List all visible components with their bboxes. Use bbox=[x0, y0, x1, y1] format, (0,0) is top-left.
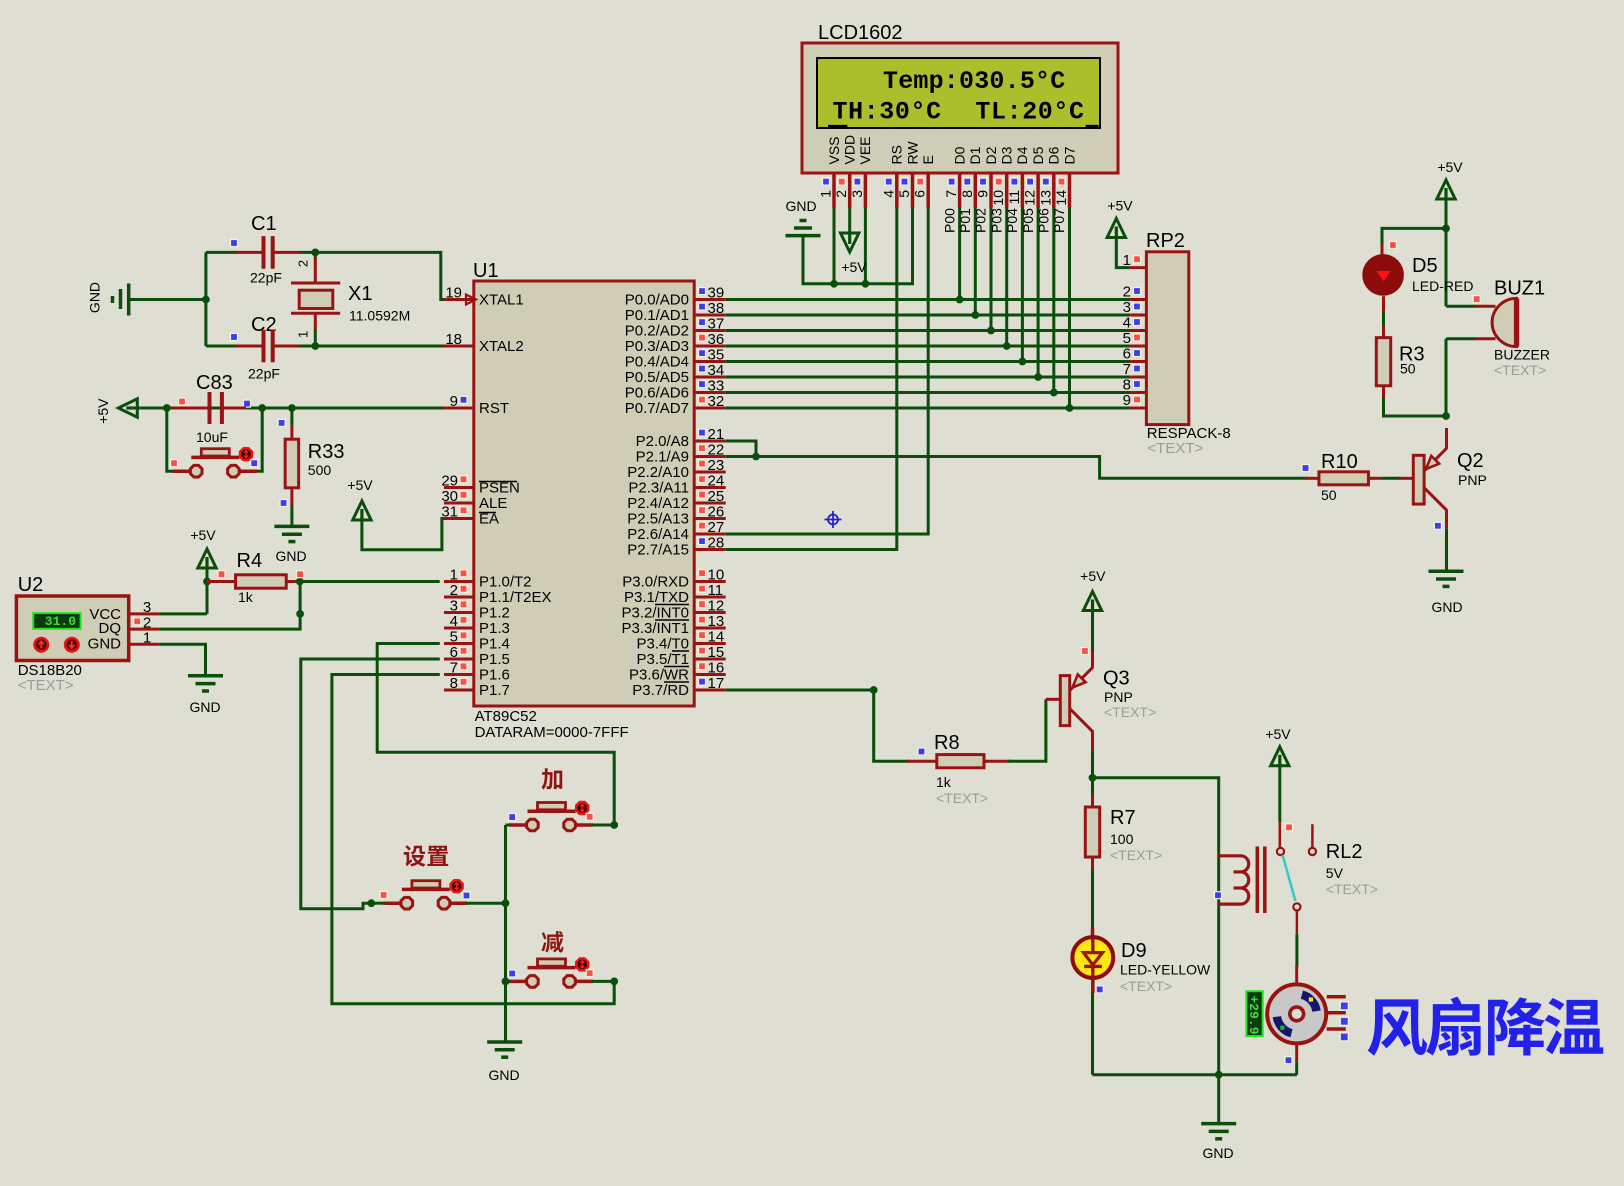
svg-text:3: 3 bbox=[1123, 299, 1131, 316]
svg-text:P2.4/A12: P2.4/A12 bbox=[627, 495, 689, 512]
svg-text:P0.0/AD0: P0.0/AD0 bbox=[625, 292, 689, 309]
svg-text:+29.9: +29.9 bbox=[1246, 996, 1261, 1035]
svg-text:GND: GND bbox=[1431, 599, 1462, 615]
svg-text:9: 9 bbox=[975, 190, 991, 198]
svg-text:RP2: RP2 bbox=[1146, 230, 1185, 252]
svg-text:4: 4 bbox=[1123, 315, 1131, 332]
svg-text:22pF: 22pF bbox=[248, 366, 280, 382]
svg-text:7: 7 bbox=[450, 660, 458, 677]
svg-text:19: 19 bbox=[445, 285, 462, 302]
svg-text:1: 1 bbox=[1123, 252, 1131, 269]
svg-text:+5V: +5V bbox=[1265, 726, 1291, 742]
svg-text:BUZZER: BUZZER bbox=[1494, 347, 1550, 363]
svg-text:P05: P05 bbox=[1020, 208, 1036, 233]
svg-text:P04: P04 bbox=[1004, 208, 1020, 233]
svg-text:P1.6: P1.6 bbox=[479, 667, 510, 684]
svg-text:30: 30 bbox=[441, 488, 458, 505]
svg-text:X1: X1 bbox=[348, 283, 372, 305]
svg-text:GND: GND bbox=[189, 699, 220, 715]
svg-text:U2: U2 bbox=[18, 574, 44, 596]
svg-text:D6: D6 bbox=[1046, 146, 1062, 164]
svg-text:17: 17 bbox=[708, 675, 725, 692]
svg-text:+5V: +5V bbox=[95, 398, 111, 424]
svg-text:BUZ1: BUZ1 bbox=[1494, 278, 1545, 300]
svg-text:+5V: +5V bbox=[841, 259, 867, 275]
svg-text:11: 11 bbox=[1006, 190, 1022, 205]
svg-text:R8: R8 bbox=[934, 732, 960, 754]
svg-text:RW: RW bbox=[904, 141, 920, 165]
svg-text:14: 14 bbox=[1053, 190, 1069, 206]
svg-text:13: 13 bbox=[1037, 190, 1053, 206]
svg-text:P06: P06 bbox=[1036, 208, 1052, 233]
svg-text:<TEXT>: <TEXT> bbox=[18, 677, 74, 694]
svg-text:9: 9 bbox=[450, 393, 458, 410]
svg-text:3: 3 bbox=[849, 190, 865, 198]
svg-text:14: 14 bbox=[708, 629, 725, 646]
svg-text:LED-YELLOW: LED-YELLOW bbox=[1120, 962, 1211, 978]
svg-text:4: 4 bbox=[450, 613, 458, 630]
svg-text:50: 50 bbox=[1321, 487, 1337, 503]
svg-text:1: 1 bbox=[143, 629, 151, 646]
svg-text:TL:20°C: TL:20°C bbox=[975, 98, 1084, 127]
svg-text:D1: D1 bbox=[967, 146, 983, 164]
svg-text:GND: GND bbox=[785, 198, 816, 214]
svg-text:P1.3: P1.3 bbox=[479, 620, 510, 637]
svg-text:P3.0/RXD: P3.0/RXD bbox=[622, 574, 689, 591]
svg-text:4: 4 bbox=[880, 190, 896, 198]
svg-text:D5: D5 bbox=[1412, 255, 1438, 277]
svg-text:P0.1/AD1: P0.1/AD1 bbox=[625, 307, 689, 324]
svg-text:<TEXT>: <TEXT> bbox=[1326, 881, 1378, 897]
svg-text:Q2: Q2 bbox=[1457, 450, 1484, 472]
svg-text:8: 8 bbox=[959, 190, 975, 198]
svg-text:P3.6/WR: P3.6/WR bbox=[629, 667, 689, 684]
svg-text:34: 34 bbox=[708, 362, 725, 379]
svg-text:<TEXT>: <TEXT> bbox=[1104, 704, 1156, 720]
svg-text:10: 10 bbox=[708, 567, 725, 584]
svg-text:LCD1602: LCD1602 bbox=[818, 22, 903, 44]
svg-text:P2.1/A9: P2.1/A9 bbox=[636, 449, 689, 466]
svg-text:+5V: +5V bbox=[190, 527, 216, 543]
svg-text:15: 15 bbox=[708, 644, 725, 661]
svg-text:6: 6 bbox=[450, 644, 458, 661]
svg-text:10uF: 10uF bbox=[196, 429, 228, 445]
svg-text:AT89C52: AT89C52 bbox=[475, 708, 537, 725]
svg-text:PNP: PNP bbox=[1104, 689, 1133, 705]
svg-text:P02: P02 bbox=[973, 208, 989, 233]
svg-text:P0.3/AD3: P0.3/AD3 bbox=[625, 338, 689, 355]
svg-text:22pF: 22pF bbox=[250, 270, 282, 286]
svg-text:24: 24 bbox=[708, 473, 725, 490]
svg-text:16: 16 bbox=[708, 660, 725, 677]
svg-text:36: 36 bbox=[708, 331, 725, 348]
svg-text:ALE: ALE bbox=[479, 495, 507, 512]
svg-text:Q3: Q3 bbox=[1103, 668, 1130, 690]
svg-text:P2.7/A15: P2.7/A15 bbox=[627, 542, 689, 559]
svg-text:P07: P07 bbox=[1051, 208, 1067, 233]
svg-text:GND: GND bbox=[88, 636, 122, 653]
svg-text:2: 2 bbox=[450, 582, 458, 599]
svg-text:31.0: 31.0 bbox=[45, 614, 76, 629]
svg-text:GND: GND bbox=[488, 1067, 519, 1083]
svg-text:5: 5 bbox=[450, 629, 458, 646]
svg-text:8: 8 bbox=[1123, 377, 1131, 394]
svg-text:D2: D2 bbox=[983, 146, 999, 164]
svg-text:C1: C1 bbox=[251, 213, 277, 235]
svg-text:P1.2: P1.2 bbox=[479, 605, 510, 622]
svg-text:+5V: +5V bbox=[1107, 198, 1133, 214]
svg-text:PNP: PNP bbox=[1458, 472, 1487, 488]
svg-text:D5: D5 bbox=[1030, 146, 1046, 164]
svg-text:8: 8 bbox=[450, 675, 458, 692]
svg-text:P1.5: P1.5 bbox=[479, 651, 510, 668]
svg-text:39: 39 bbox=[708, 285, 725, 302]
svg-text:E: E bbox=[920, 155, 936, 164]
svg-text:1: 1 bbox=[296, 331, 311, 338]
svg-text:VDD: VDD bbox=[842, 135, 858, 165]
svg-text:P0.5/AD5: P0.5/AD5 bbox=[625, 369, 689, 386]
svg-text:7: 7 bbox=[1123, 361, 1131, 378]
svg-text:28: 28 bbox=[708, 535, 725, 552]
svg-text:R4: R4 bbox=[237, 550, 263, 572]
svg-text:32: 32 bbox=[708, 393, 725, 410]
svg-text:1k: 1k bbox=[238, 589, 254, 605]
svg-text:P2.0/A8: P2.0/A8 bbox=[636, 433, 689, 450]
svg-text:P2.5/A13: P2.5/A13 bbox=[627, 511, 689, 528]
svg-text:<TEXT>: <TEXT> bbox=[1120, 978, 1172, 994]
svg-text:2: 2 bbox=[296, 260, 311, 267]
svg-text:D4: D4 bbox=[1014, 146, 1030, 164]
svg-text:5V: 5V bbox=[1326, 865, 1344, 881]
svg-text:GND: GND bbox=[275, 548, 306, 564]
svg-text:18: 18 bbox=[445, 331, 462, 348]
svg-text:GND: GND bbox=[1202, 1145, 1233, 1161]
svg-text:P3.5/T1: P3.5/T1 bbox=[636, 651, 689, 668]
svg-text:P01: P01 bbox=[957, 208, 973, 233]
svg-text:D3: D3 bbox=[999, 146, 1015, 164]
svg-text:R33: R33 bbox=[308, 441, 345, 463]
svg-text:26: 26 bbox=[708, 504, 725, 521]
svg-text:37: 37 bbox=[708, 316, 725, 333]
svg-text:23: 23 bbox=[708, 457, 725, 474]
svg-text:2: 2 bbox=[833, 190, 849, 198]
svg-text:P1.1/T2EX: P1.1/T2EX bbox=[479, 589, 552, 606]
svg-text:22: 22 bbox=[708, 442, 725, 459]
svg-text:1: 1 bbox=[450, 567, 458, 584]
svg-text:38: 38 bbox=[708, 300, 725, 317]
svg-text:R7: R7 bbox=[1110, 807, 1136, 829]
svg-text:P1.0/T2: P1.0/T2 bbox=[479, 574, 532, 591]
svg-text:11: 11 bbox=[708, 582, 724, 599]
svg-text:P0.7/AD7: P0.7/AD7 bbox=[625, 400, 689, 417]
svg-text:TH:30°C: TH:30°C bbox=[833, 98, 942, 127]
svg-text:9: 9 bbox=[1123, 392, 1131, 409]
svg-text:XTAL2: XTAL2 bbox=[479, 338, 524, 355]
svg-text:P0.2/AD2: P0.2/AD2 bbox=[625, 323, 689, 340]
svg-text:<TEXT>: <TEXT> bbox=[936, 790, 988, 806]
svg-text:DATARAM=0000-7FFF: DATARAM=0000-7FFF bbox=[475, 724, 629, 741]
svg-text:+5V: +5V bbox=[1437, 159, 1463, 175]
svg-text:6: 6 bbox=[1123, 346, 1131, 363]
svg-text:P3.2/INT0: P3.2/INT0 bbox=[621, 605, 689, 622]
svg-text:P1.7: P1.7 bbox=[479, 682, 510, 699]
svg-text:+5V: +5V bbox=[1080, 568, 1106, 584]
svg-text:P3.7/RD: P3.7/RD bbox=[632, 682, 689, 699]
svg-text:GND: GND bbox=[87, 282, 103, 313]
svg-text:P0.6/AD6: P0.6/AD6 bbox=[625, 385, 689, 402]
svg-text:33: 33 bbox=[708, 378, 725, 395]
svg-text:29: 29 bbox=[441, 473, 458, 490]
svg-text:RS: RS bbox=[889, 145, 905, 164]
svg-text:11.0592M: 11.0592M bbox=[349, 308, 410, 324]
svg-text:12: 12 bbox=[708, 598, 725, 615]
svg-text:+5V: +5V bbox=[347, 477, 373, 493]
svg-text:D9: D9 bbox=[1121, 940, 1147, 962]
svg-text:7: 7 bbox=[943, 190, 959, 198]
svg-text:DQ: DQ bbox=[99, 620, 122, 637]
svg-text:10: 10 bbox=[990, 190, 1006, 206]
svg-text:50: 50 bbox=[1400, 361, 1416, 377]
svg-text:P2.6/A14: P2.6/A14 bbox=[627, 526, 689, 543]
svg-text:1k: 1k bbox=[936, 774, 952, 790]
svg-text:XTAL1: XTAL1 bbox=[479, 292, 524, 309]
svg-text:100: 100 bbox=[1110, 831, 1134, 847]
svg-text:RST: RST bbox=[479, 400, 509, 417]
svg-text:D0: D0 bbox=[951, 146, 967, 164]
svg-text:12: 12 bbox=[1022, 190, 1038, 206]
svg-text:C83: C83 bbox=[196, 372, 233, 394]
svg-text:P3.1/TXD: P3.1/TXD bbox=[624, 589, 689, 606]
svg-text:35: 35 bbox=[708, 347, 725, 364]
svg-text:P2.3/A11: P2.3/A11 bbox=[628, 480, 689, 497]
svg-text:P0.4/AD4: P0.4/AD4 bbox=[625, 354, 689, 371]
svg-text:3: 3 bbox=[450, 598, 458, 615]
svg-text:P03: P03 bbox=[988, 208, 1004, 233]
svg-text:R10: R10 bbox=[1321, 451, 1358, 473]
svg-text:D7: D7 bbox=[1061, 146, 1077, 164]
svg-text:VSS: VSS bbox=[826, 136, 842, 164]
svg-text:P2.2/A10: P2.2/A10 bbox=[627, 464, 689, 481]
svg-text:<TEXT>: <TEXT> bbox=[1494, 362, 1546, 378]
svg-text:5: 5 bbox=[1123, 330, 1131, 347]
svg-text:LED-RED: LED-RED bbox=[1412, 278, 1473, 294]
svg-text:21: 21 bbox=[708, 426, 725, 443]
svg-text:<TEXT>: <TEXT> bbox=[1110, 847, 1162, 863]
svg-text:25: 25 bbox=[708, 488, 725, 505]
svg-text:P3.3/INT1: P3.3/INT1 bbox=[621, 620, 689, 637]
svg-text:<TEXT>: <TEXT> bbox=[1147, 440, 1203, 457]
svg-text:P1.4: P1.4 bbox=[479, 636, 510, 653]
svg-text:27: 27 bbox=[708, 519, 725, 536]
svg-text:P00: P00 bbox=[941, 208, 957, 233]
svg-text:1: 1 bbox=[818, 190, 834, 198]
svg-text:2: 2 bbox=[1123, 284, 1131, 301]
svg-text:U1: U1 bbox=[473, 260, 499, 282]
svg-text:5: 5 bbox=[896, 190, 912, 198]
svg-text:500: 500 bbox=[308, 462, 332, 478]
svg-text:VEE: VEE bbox=[857, 136, 873, 164]
svg-text:Temp:030.5°C: Temp:030.5°C bbox=[883, 67, 1065, 96]
svg-text:RL2: RL2 bbox=[1326, 841, 1363, 863]
svg-text:13: 13 bbox=[708, 613, 725, 630]
svg-text:6: 6 bbox=[912, 190, 928, 198]
svg-text:P3.4/T0: P3.4/T0 bbox=[636, 636, 689, 653]
